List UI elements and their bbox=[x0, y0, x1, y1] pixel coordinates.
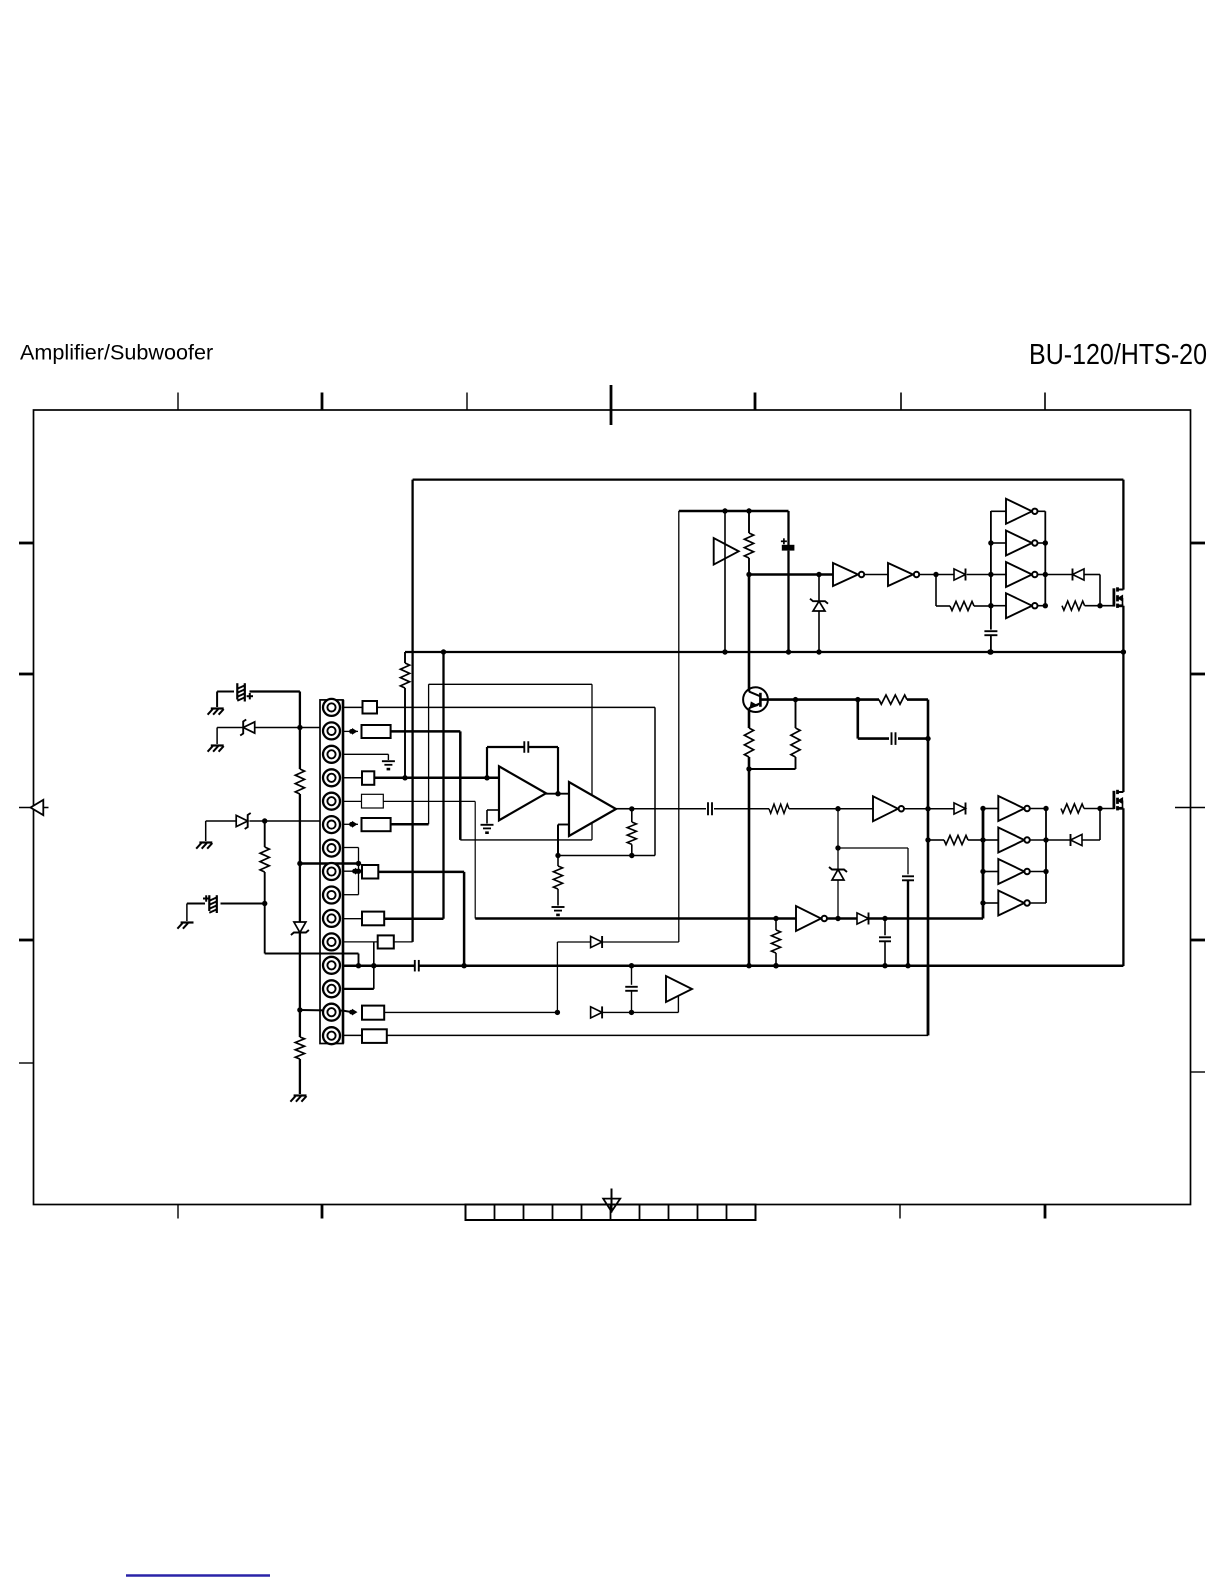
wire U2-U3 bbox=[865, 574, 888, 576]
ground G6 bbox=[196, 843, 212, 849]
node out t4 bbox=[1043, 603, 1048, 608]
node out b1 bbox=[1043, 806, 1048, 811]
wire D2 out bbox=[967, 574, 990, 576]
stack input stubs bot bbox=[983, 809, 998, 904]
node r16 bottom bbox=[262, 901, 267, 906]
wire R2 out bbox=[974, 605, 990, 607]
diode D2 bbox=[954, 569, 966, 581]
node on V+ top a bbox=[722, 508, 727, 513]
resistor R4 bbox=[400, 652, 409, 778]
stack output stubs bot bbox=[1030, 809, 1046, 904]
wire c14 cross bbox=[300, 1010, 350, 1012]
wire box8 net bbox=[378, 872, 464, 966]
resistor R15 bbox=[295, 1037, 304, 1059]
resistor R7 bbox=[749, 700, 800, 769]
wire emitter bbox=[760, 698, 879, 701]
wire jog 953 bbox=[265, 904, 359, 966]
connector box B14 bbox=[362, 1006, 384, 1020]
capacitor C2 bbox=[984, 631, 997, 652]
capacitor C8 bbox=[415, 960, 419, 972]
op-amp U6 bbox=[569, 782, 616, 836]
node R12 x928 bbox=[925, 837, 930, 842]
diode D7 bbox=[591, 936, 603, 948]
wire drop x678 bbox=[678, 511, 680, 942]
wire U6 fb in bbox=[558, 825, 569, 856]
node x749 bottom bbox=[746, 963, 751, 968]
resistor R2 bbox=[950, 601, 974, 610]
node gate bot bbox=[1097, 806, 1102, 811]
wire c2 box bbox=[343, 728, 358, 735]
title left bbox=[20, 340, 213, 365]
zener D4 bbox=[829, 809, 847, 919]
wire C6 out bbox=[907, 880, 909, 965]
node C6 bottom bbox=[905, 963, 910, 968]
wire loop bottom bbox=[460, 839, 592, 841]
wire link 11-13 bbox=[373, 942, 375, 989]
node gate top bbox=[1097, 603, 1102, 608]
resistor R8 bbox=[627, 809, 636, 855]
capacitor C9 bbox=[625, 966, 638, 1013]
wire x749 main bbox=[748, 575, 751, 692]
node D5 out bbox=[882, 916, 887, 921]
capacitor C7 bbox=[879, 919, 891, 966]
node gnd x373 bbox=[371, 963, 376, 968]
resistor R5 bbox=[879, 695, 907, 704]
diode D5 bbox=[857, 913, 869, 925]
wire x928 mid bbox=[927, 738, 930, 1035]
buffer U1 bbox=[714, 538, 739, 565]
node bracket b bbox=[356, 869, 361, 874]
wire loop left bbox=[428, 684, 430, 824]
buffer U10A bbox=[998, 796, 1030, 821]
ground G1 bbox=[481, 825, 494, 834]
node zener tap bbox=[816, 572, 821, 577]
buffer U4A bbox=[1006, 499, 1038, 524]
wire input4 bbox=[187, 904, 265, 922]
node D4 mid bbox=[835, 845, 840, 850]
wire diode lift bbox=[557, 942, 590, 1012]
inverter U2 bbox=[833, 563, 864, 586]
frame alignment ticks bbox=[19, 385, 1205, 1219]
node aux14 b bbox=[629, 1010, 634, 1015]
wire D9 up bbox=[1082, 809, 1100, 841]
node aux14 a bbox=[555, 1010, 560, 1015]
wire C4 branch bbox=[487, 747, 524, 778]
node drop c2 bbox=[297, 725, 302, 730]
buffer U10C bbox=[998, 859, 1030, 884]
node rail t4 bbox=[988, 603, 993, 608]
stack output rail bot bbox=[1045, 809, 1047, 904]
zener D11 bbox=[291, 922, 309, 935]
wire aux14 bbox=[384, 1011, 557, 1013]
capacitor C5 bbox=[708, 802, 712, 815]
diode D3 bbox=[1073, 569, 1085, 581]
connector box B11 bbox=[378, 935, 394, 948]
node out t3 bbox=[1043, 572, 1048, 577]
ground G4 bbox=[208, 746, 224, 752]
wire U3 out bbox=[920, 574, 954, 576]
wire D3 corner bbox=[1084, 575, 1100, 606]
bracket c7-c9 bbox=[343, 848, 359, 895]
stack input rail bot bbox=[982, 809, 985, 919]
node bracket a bbox=[356, 861, 361, 866]
wire box5 net bbox=[383, 801, 475, 918]
node out b3 bbox=[1043, 869, 1048, 874]
wire D6 cont bbox=[602, 1011, 678, 1013]
node rail b2 bbox=[980, 837, 985, 842]
wire gnd rail bbox=[343, 964, 1123, 967]
node in cap bbox=[484, 775, 489, 780]
mosfet Q1 bbox=[1114, 587, 1124, 608]
left margin arrow bbox=[19, 800, 49, 815]
wire aux15 bbox=[387, 966, 928, 1036]
wire snubber bbox=[838, 848, 908, 874]
resistor R6 bbox=[744, 708, 753, 769]
node rail t3 bbox=[988, 572, 993, 577]
resistor R3 bbox=[1062, 601, 1085, 610]
connector box B10 bbox=[362, 912, 384, 926]
node D1 bottom bbox=[816, 649, 821, 654]
wire to R10 bbox=[714, 808, 769, 810]
buffer U4C bbox=[1006, 562, 1038, 587]
wire c11 bbox=[343, 941, 378, 943]
node rail b4 bbox=[980, 900, 985, 905]
connector box B5 bbox=[362, 794, 384, 808]
wire c15 bbox=[343, 1034, 362, 1036]
resistor R10 bbox=[769, 804, 789, 813]
node em b bbox=[855, 697, 860, 702]
wire inverter chain bbox=[749, 573, 833, 576]
wire bus corner bbox=[982, 809, 985, 919]
diode D9 bbox=[1071, 834, 1083, 846]
border frame bbox=[34, 410, 1191, 1205]
node gnd x631 bbox=[629, 963, 634, 968]
terminal pins bbox=[323, 699, 340, 1044]
buffer U9 bbox=[666, 976, 692, 1002]
node x725 bottom bbox=[722, 649, 727, 654]
node rail t2 bbox=[988, 540, 993, 545]
wire box6 net bbox=[391, 823, 429, 826]
ferrite FB1 bbox=[237, 683, 253, 701]
wire U5 out bbox=[546, 793, 569, 795]
node gnd x885 bbox=[882, 963, 887, 968]
wire c8 box bbox=[343, 868, 362, 875]
node zener tap2 bbox=[835, 806, 840, 811]
buffer U4B bbox=[1006, 531, 1038, 556]
wire cross y863 bbox=[300, 862, 359, 865]
resistor R13 bbox=[1061, 804, 1084, 813]
svg-text:Amplifier/Subwoofer: Amplifier/Subwoofer bbox=[20, 340, 213, 365]
wire c13 bbox=[343, 988, 374, 990]
capacitor C6 bbox=[902, 876, 914, 880]
capacitor C4 bbox=[524, 741, 528, 753]
wire c10 bbox=[343, 918, 362, 920]
buffer U10B bbox=[998, 828, 1030, 853]
ground G7 bbox=[177, 923, 193, 929]
zener D1 bbox=[810, 575, 828, 653]
inverter U8 bbox=[796, 906, 827, 931]
wire input3 bbox=[206, 821, 320, 841]
ferrite FB2 bbox=[203, 895, 217, 913]
wire V+ top bbox=[679, 510, 789, 513]
wire box1 net bbox=[377, 707, 655, 855]
node R6 R7 bbox=[746, 766, 751, 771]
wire box10 net bbox=[384, 652, 443, 919]
node R11 bottom bbox=[773, 963, 778, 968]
node U7 x928 bbox=[925, 806, 930, 811]
stack output stubs top bbox=[1038, 511, 1046, 605]
wire gate top bbox=[1085, 605, 1114, 607]
node in r4 bbox=[402, 775, 407, 780]
wire R2 branch bbox=[936, 575, 950, 607]
connector box B2 bbox=[362, 725, 391, 738]
wire input1 drop bbox=[299, 692, 301, 1095]
node fb bbox=[555, 853, 560, 858]
resistor R1 bbox=[744, 533, 753, 558]
stack input rail top bbox=[990, 511, 992, 630]
ground stub U5 bbox=[487, 810, 499, 824]
wire c14 box bbox=[349, 1009, 357, 1016]
wire c5 bbox=[343, 800, 362, 802]
wire U6 out bbox=[616, 808, 632, 810]
node rail b3 bbox=[980, 869, 985, 874]
terminal strip J1 bbox=[320, 700, 343, 1044]
transistor Q3 bbox=[743, 687, 768, 712]
ground G5 bbox=[290, 1096, 306, 1102]
connector box B6 bbox=[362, 818, 391, 831]
resistor R14 bbox=[295, 769, 304, 794]
wire x749 upper bbox=[748, 511, 750, 533]
wire R5 corner bbox=[907, 700, 928, 738]
wire up buf bbox=[677, 996, 679, 1013]
wire D7 up bbox=[602, 941, 679, 943]
resistor R12 bbox=[928, 835, 983, 844]
node U8 out bbox=[835, 916, 840, 921]
svg-text:BU-120/HTS-20: BU-120/HTS-20 bbox=[1029, 339, 1207, 371]
wire loop right bbox=[591, 684, 593, 840]
ground G8 bbox=[382, 761, 395, 770]
wire to D3 bbox=[1045, 574, 1072, 576]
wire signal out bbox=[632, 808, 706, 810]
node gnd x464 bbox=[461, 963, 466, 968]
diode D8 bbox=[954, 803, 966, 815]
ground G2 bbox=[552, 907, 565, 916]
wire gate bot bbox=[1084, 808, 1114, 810]
resistor R11 bbox=[771, 919, 780, 966]
title right bbox=[1029, 339, 1207, 371]
node U5 out bbox=[555, 791, 560, 796]
wire drop x725 bbox=[724, 511, 726, 652]
wire zener in2 bbox=[217, 728, 320, 745]
node gnd x358 bbox=[356, 963, 361, 968]
node mix bbox=[746, 572, 751, 577]
power rail top edge bbox=[413, 478, 1124, 480]
inverter U3 bbox=[888, 563, 919, 586]
wire fb bus bbox=[558, 855, 655, 857]
wire drive bus bbox=[475, 917, 983, 920]
connector box B8 bbox=[362, 865, 378, 879]
diode D6 bbox=[591, 1006, 603, 1018]
node bus x1123 bbox=[1121, 649, 1126, 654]
mosfet Q2 bbox=[1114, 790, 1124, 811]
stack output rail top bbox=[1044, 511, 1046, 605]
wire C3 out bbox=[898, 737, 928, 740]
node bus x990 bbox=[987, 649, 992, 654]
wire cap branch bbox=[858, 700, 889, 739]
wire input signal bbox=[374, 777, 499, 780]
node R8 bottom bbox=[629, 853, 634, 858]
capacitor C3 bbox=[892, 732, 896, 745]
node em a bbox=[793, 697, 798, 702]
node stack drive bbox=[933, 572, 938, 577]
wire c1 bbox=[343, 706, 363, 708]
wire box11 net bbox=[394, 941, 413, 943]
connector box B4 bbox=[362, 771, 374, 785]
node C2 bottom bbox=[988, 649, 993, 654]
node gnd x776b bbox=[773, 963, 778, 968]
node drive r bbox=[773, 916, 778, 921]
node in3 bbox=[262, 818, 267, 823]
resistor R16 bbox=[260, 821, 269, 904]
wire x749 to node bbox=[748, 558, 750, 575]
wire c3 bbox=[343, 754, 388, 760]
wire input1 top bbox=[217, 692, 300, 708]
node on V+ top b bbox=[746, 508, 751, 513]
resistor R9 bbox=[553, 856, 562, 906]
stack input stubs top bbox=[991, 511, 1006, 605]
capacitor C1 polarized bbox=[781, 511, 794, 652]
inverter U7 bbox=[873, 796, 904, 821]
rail left edge wire bbox=[411, 480, 413, 942]
rail right edge wire bbox=[1122, 480, 1124, 966]
wire x749 lower bbox=[748, 769, 751, 966]
bottom center arrow bbox=[603, 1189, 620, 1213]
wire loop top bbox=[429, 683, 592, 685]
node drop hline bbox=[297, 861, 302, 866]
buffer U10D bbox=[998, 891, 1030, 916]
node drop c14 bbox=[297, 1007, 302, 1012]
wire box2 net bbox=[391, 731, 461, 840]
connector box B15 bbox=[362, 1029, 387, 1043]
op-amp U5 bbox=[499, 766, 546, 820]
connector box B1 bbox=[363, 701, 378, 714]
footer blue line bbox=[126, 1574, 270, 1577]
buffer U4D bbox=[1006, 593, 1038, 618]
node rail b1 bbox=[980, 806, 985, 811]
ground G3 bbox=[208, 709, 224, 715]
node U6 out bbox=[629, 806, 634, 811]
rail mid bus y652 bbox=[405, 651, 1123, 653]
bottom scale bar bbox=[466, 1205, 756, 1221]
zener D12 bbox=[236, 813, 251, 829]
wire to D9 bbox=[1046, 839, 1071, 841]
node out b2 bbox=[1043, 837, 1048, 842]
node bus x444 bbox=[441, 649, 446, 654]
wire U7 out bbox=[905, 808, 954, 810]
node C1 bottom bbox=[786, 649, 791, 654]
wire c4 bbox=[343, 777, 362, 779]
node out t2 bbox=[1043, 540, 1048, 545]
wire C4 out bbox=[529, 747, 558, 794]
wire to U7 bbox=[789, 808, 873, 810]
node x928 cap bbox=[925, 736, 930, 741]
wire c6 box bbox=[343, 821, 358, 828]
zener D10 bbox=[240, 720, 255, 736]
